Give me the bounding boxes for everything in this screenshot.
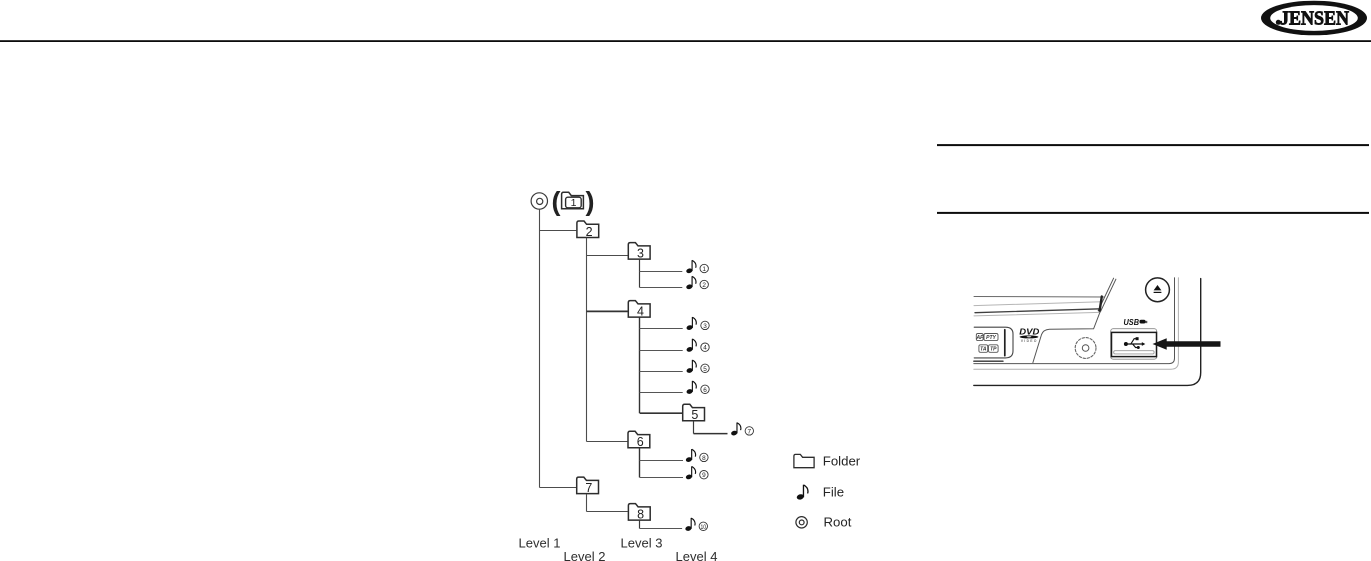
svg-text:2: 2 (702, 282, 706, 289)
wire: to folder 4 (587, 310, 628, 312)
file note 7 (731, 423, 741, 437)
svg-text:TP: TP (990, 347, 997, 353)
folder 5 (683, 404, 705, 422)
svg-text:9: 9 (702, 472, 706, 479)
button TP (989, 345, 999, 353)
svg-text:File: File (823, 485, 844, 500)
wire: folder 2 vertical (586, 238, 588, 442)
wire: folder 8 vertical (639, 520, 641, 528)
wire: to file 5 (640, 371, 683, 373)
slot line 4 (974, 312, 1099, 316)
folder 3 (628, 243, 650, 261)
rule upper (937, 144, 1369, 146)
file note 6 (686, 381, 696, 395)
svg-text:USB: USB (1124, 317, 1140, 327)
circled 6 (701, 385, 709, 394)
root (531, 193, 547, 209)
circled 3 (701, 321, 709, 330)
wire: to folder 7 (540, 487, 577, 489)
face contour (1033, 312, 1100, 363)
folder 6 (628, 431, 650, 449)
svg-text:PTY: PTY (986, 335, 996, 341)
svg-text:Level 4: Level 4 (676, 549, 718, 561)
wire: to folder 5 (640, 412, 682, 414)
rule lower (937, 212, 1369, 214)
wire: folder 5 vertical (693, 421, 695, 434)
svg-text:6: 6 (637, 435, 644, 449)
file note 5 (686, 360, 696, 374)
folder 2 (577, 221, 599, 239)
wire: to file 8 (640, 460, 684, 462)
svg-text:Folder: Folder (823, 454, 861, 469)
legend file icon (796, 485, 808, 501)
svg-text:1: 1 (571, 197, 577, 209)
circled 5 (701, 364, 709, 373)
slot edge diagonal inner (1100, 279, 1116, 312)
slot line 3 (975, 309, 1101, 313)
wire: to file 1 (640, 271, 683, 273)
wire: to folder 8 (587, 511, 628, 513)
button PTY (984, 334, 998, 341)
svg-text:2: 2 (586, 225, 593, 239)
file note 9 (685, 466, 695, 480)
svg-text:8: 8 (702, 455, 706, 462)
button AF (976, 334, 983, 341)
wire: to file 9 (640, 477, 684, 479)
wire: folder 7 vertical (586, 494, 588, 512)
legend root icon (796, 517, 807, 528)
wire: folder 4 vertical (639, 318, 641, 414)
slot edge dark segment (1100, 297, 1102, 311)
wire: folder 6 vertical (639, 448, 641, 477)
USB port outer (1111, 329, 1157, 360)
svg-text:(: ( (552, 187, 561, 217)
USB trident symbol (1124, 337, 1145, 349)
svg-text:Level 1: Level 1 (519, 536, 561, 551)
svg-text:DVD: DVD (1019, 326, 1039, 336)
file note 3 (686, 317, 696, 331)
slot line 2 (974, 302, 1102, 306)
wire: to folder 2 (540, 230, 577, 232)
file note 4 (686, 339, 696, 353)
svg-text:3: 3 (703, 323, 707, 330)
panel under shadow (974, 360, 1003, 362)
USB port inner (1112, 332, 1157, 356)
wire: to file 10 (640, 528, 683, 530)
svg-text:Root: Root (824, 515, 852, 530)
wire: to file 7 (694, 433, 728, 435)
svg-text:8: 8 (637, 508, 644, 522)
wire: folder 3 vertical (639, 259, 641, 287)
folder 4 (628, 301, 650, 319)
folder 8 (628, 504, 650, 522)
circled 8 (700, 453, 708, 462)
button panel divider (1004, 330, 1006, 356)
wire: to file 6 (640, 392, 683, 394)
svg-text:6: 6 (703, 387, 707, 394)
wire: to folder 6 (587, 441, 628, 443)
inner bezel line 2 (974, 278, 1179, 369)
folder 1 (562, 192, 584, 209)
svg-text:): ) (586, 187, 595, 217)
circled 7 (745, 427, 753, 436)
svg-text:7: 7 (585, 481, 592, 495)
knob circle (1075, 338, 1096, 359)
circled 9 (700, 471, 708, 480)
file note 10 (685, 518, 695, 532)
svg-text:10: 10 (701, 524, 707, 531)
circled 4 (701, 343, 709, 352)
svg-text:4: 4 (703, 345, 707, 352)
circled 1 (700, 264, 708, 273)
svg-text:5: 5 (691, 408, 698, 422)
svg-text:3: 3 (637, 247, 644, 261)
file note 1 (686, 260, 696, 274)
DVD video logo (1019, 326, 1039, 343)
outer bezel (974, 279, 1201, 386)
wire: to file 2 (640, 287, 683, 289)
legend folder icon (794, 454, 814, 467)
svg-text:Level 3: Level 3 (621, 536, 663, 551)
circled 2 (700, 280, 708, 289)
svg-text:JENSEN: JENSEN (1280, 8, 1349, 30)
svg-text:7: 7 (748, 428, 752, 435)
USB port slot (1114, 351, 1154, 354)
svg-text:Level 2: Level 2 (564, 549, 606, 561)
wire: root vertical level 1 (539, 209, 541, 487)
svg-text:4: 4 (637, 305, 644, 319)
svg-text:VIDEO: VIDEO (1021, 339, 1038, 343)
svg-text:AF: AF (975, 335, 984, 341)
file note 2 (686, 276, 696, 290)
svg-text:®: ® (1351, 6, 1356, 14)
wire: to folder 3 (587, 255, 628, 257)
USB label (1124, 317, 1148, 327)
slot line top (974, 296, 1105, 299)
eject button (1146, 278, 1170, 302)
wire: to file 3 (640, 328, 683, 330)
slot edge diagonal outer (1098, 278, 1113, 310)
file note 8 (685, 449, 695, 463)
svg-text:TA: TA (980, 347, 987, 353)
button panel outline (974, 327, 1013, 358)
top rule (0, 40, 1371, 42)
circled 10 (699, 522, 707, 531)
svg-text:1: 1 (702, 266, 706, 273)
inner bezel line 1 (974, 278, 1175, 364)
button TA (979, 345, 988, 353)
USB arrow (1153, 338, 1221, 350)
wire: to file 4 (640, 350, 683, 352)
JENSEN logo (1261, 1, 1367, 36)
svg-text:5: 5 (703, 366, 707, 373)
folder 7 (577, 477, 599, 495)
